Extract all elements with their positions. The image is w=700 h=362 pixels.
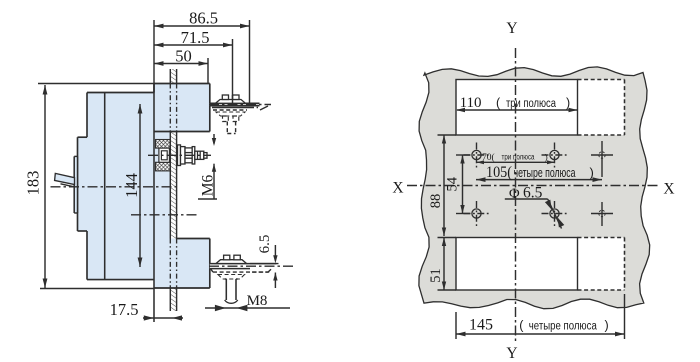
- svg-text:145: 145: [469, 317, 493, 334]
- mounting hole top-middle: [542, 143, 568, 168]
- dimension 51: [428, 238, 456, 291]
- Y axis: [506, 20, 517, 362]
- dimension M8: [205, 293, 290, 311]
- dimension 50: [154, 47, 208, 84]
- dimension 71.5: [154, 28, 233, 104]
- svg-text:110: 110: [460, 95, 482, 111]
- svg-text:четыре полюса: четыре полюса: [514, 166, 576, 180]
- lower centre line: [131, 214, 197, 216]
- M6 callout: [198, 134, 217, 199]
- svg-text:88: 88: [428, 194, 444, 209]
- svg-text:50: 50: [175, 47, 192, 66]
- svg-text:три полюса: три полюса: [506, 98, 556, 110]
- svg-text:M6: M6: [200, 174, 217, 196]
- dimension 54: [445, 155, 471, 214]
- dimension 105 (four poles): [476, 164, 602, 182]
- svg-text:X: X: [663, 181, 674, 198]
- dimension 86.5: [154, 9, 250, 104]
- svg-text:): ): [545, 152, 548, 162]
- dimension 70 (three poles): [477, 152, 555, 164]
- svg-text:51: 51: [428, 268, 444, 283]
- svg-text:6.5: 6.5: [257, 235, 273, 254]
- svg-text:70(: 70(: [482, 152, 495, 163]
- dimension 110 (three poles): [456, 95, 578, 112]
- dimension 183: [24, 84, 156, 289]
- body outline: [78, 84, 210, 323]
- dimension 144: [122, 104, 142, 267]
- M6 mounting screw and spring: [148, 140, 211, 171]
- phantom hole bottom-right (four pole): [591, 202, 613, 226]
- mounting hole bottom-left: [464, 201, 490, 226]
- svg-text:144: 144: [122, 173, 141, 198]
- handle centre line: [51, 186, 179, 188]
- svg-text:): ): [566, 96, 570, 110]
- toggle handle: [55, 173, 75, 187]
- hole diameter callout Ф6.5: [505, 185, 565, 229]
- svg-text:): ): [590, 165, 594, 180]
- svg-text:M8: M8: [247, 293, 268, 309]
- svg-text:): ): [605, 319, 609, 333]
- svg-text:54: 54: [445, 176, 461, 191]
- svg-text:86.5: 86.5: [189, 9, 218, 28]
- svg-text:17.5: 17.5: [110, 300, 139, 319]
- mounting hole top-left: [464, 143, 490, 168]
- dimension 145 (four poles): [456, 294, 625, 339]
- panel cutout drawing (grey plate): [419, 67, 650, 309]
- svg-text:три полюса: три полюса: [502, 152, 536, 161]
- X axis: [392, 180, 674, 198]
- top terminal bolt: [209, 95, 271, 134]
- dimension 88: [428, 135, 456, 236]
- top cutout (three poles): [456, 80, 625, 136]
- svg-text:X: X: [392, 180, 403, 197]
- mounting hole bottom-middle: [542, 201, 568, 226]
- svg-text:Y: Y: [506, 345, 517, 362]
- dimension 17.5: [110, 300, 183, 321]
- mounting panel (hatched strip): [170, 69, 176, 311]
- svg-text:183: 183: [24, 171, 43, 196]
- bottom terminal bolt (M8 stud): [209, 255, 295, 303]
- bottom cutout (four poles): [456, 238, 625, 291]
- escutcheon plate: [74, 156, 77, 213]
- breaker body side view: [78, 84, 210, 289]
- svg-text:71.5: 71.5: [181, 28, 210, 47]
- svg-text:Y: Y: [506, 20, 517, 37]
- svg-text:105(: 105(: [486, 164, 512, 181]
- phantom hole top-right (four pole): [591, 141, 613, 177]
- dimension 6.5: [250, 235, 279, 288]
- svg-text:четыре полюса: четыре полюса: [529, 320, 597, 332]
